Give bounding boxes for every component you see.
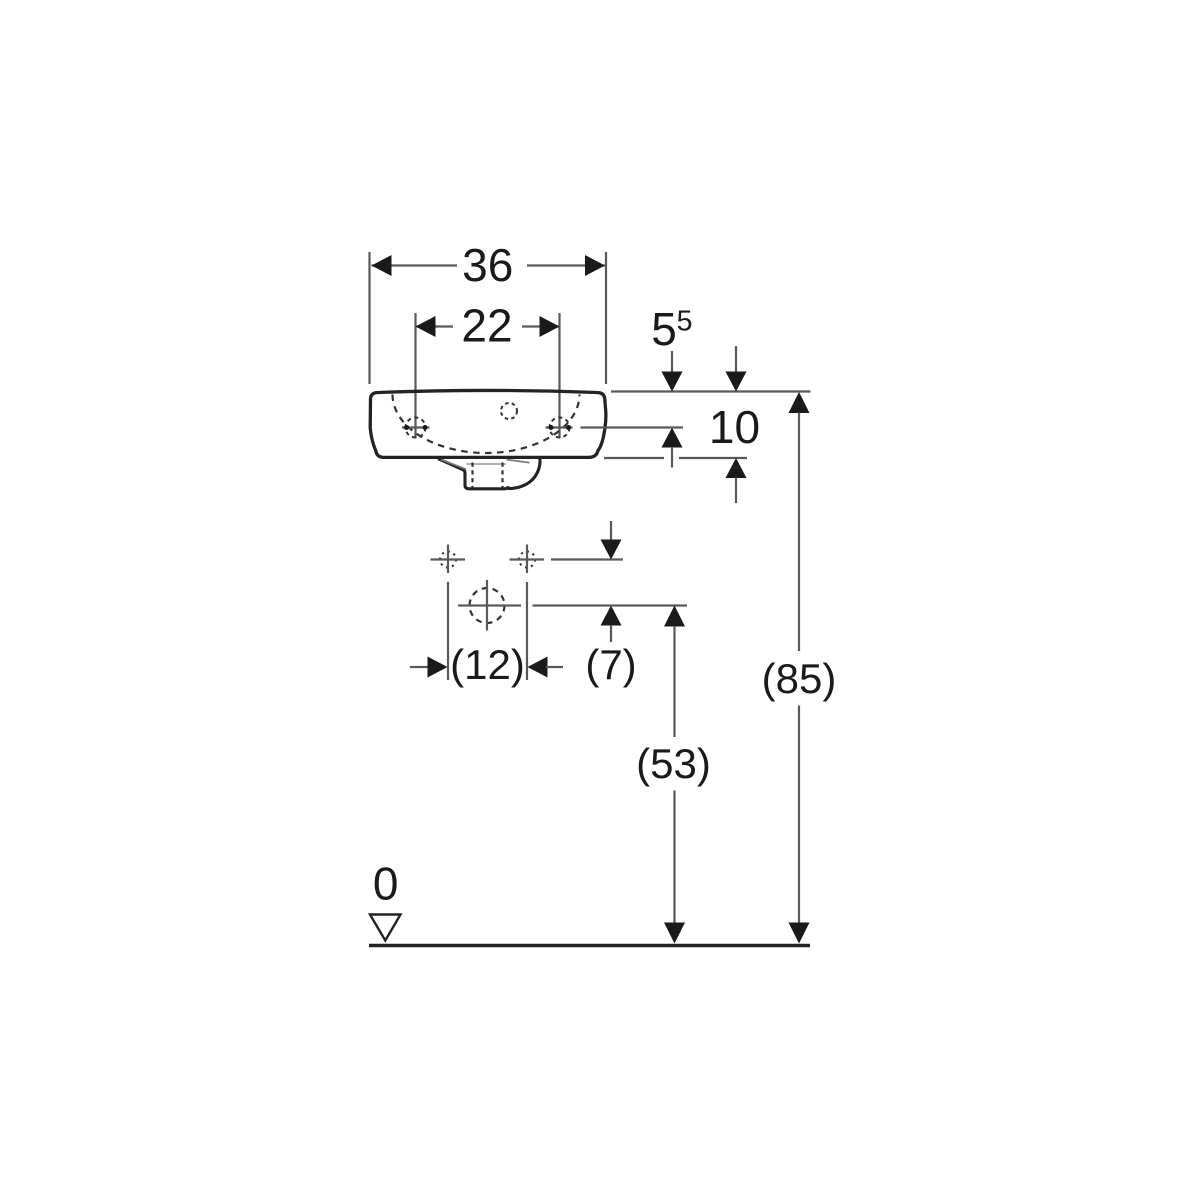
- dim 53 lower arrowhead: [664, 923, 685, 944]
- right mounting hole dotted circle: [519, 552, 535, 568]
- dim 12 left arrowhead: [428, 657, 448, 678]
- dim 7 lower arrowhead: [601, 606, 622, 626]
- mounting hole level line: [551, 558, 623, 560]
- left basin hole cross end dots: [404, 425, 409, 430]
- arrowhead left of dim 36: [372, 255, 392, 276]
- drain inner slant line right: [507, 460, 530, 463]
- level line bottom of basin left segment: [604, 457, 664, 459]
- dim 7 lower arrow stem: [610, 625, 612, 642]
- siphon dashed circle: [470, 588, 505, 623]
- right basin hole cross line: [546, 426, 573, 428]
- dim 12 right arrowhead: [528, 657, 548, 678]
- dimension line 36 right segment: [527, 264, 605, 266]
- dimension line 36 left segment: [372, 264, 458, 266]
- dimension line 22 right segment: [522, 325, 560, 327]
- left mounting hole dotted circle: [440, 552, 456, 568]
- svg-text:(12): (12): [450, 641, 525, 688]
- left basin hole cross line: [402, 426, 430, 428]
- svg-text:0: 0: [373, 858, 399, 910]
- dim 85 lower stem: [798, 706, 800, 924]
- dim 12 right extension line: [526, 582, 528, 680]
- drain inner slant line left: [441, 460, 466, 470]
- svg-text:36: 36: [462, 239, 513, 291]
- arrowhead right of dim 36: [585, 255, 605, 276]
- dim 10 upper arrowhead: [726, 372, 747, 392]
- right basin hole cross end dots: [549, 425, 554, 430]
- level line top of basin: [611, 390, 811, 392]
- dim 10 lower arrowhead: [726, 458, 747, 478]
- drain outlet thick outline: [438, 459, 508, 489]
- dimension line 22 left segment: [416, 325, 454, 327]
- svg-text:10: 10: [709, 401, 760, 453]
- right mounting hole vertical cross: [526, 545, 528, 574]
- drain inner bottom line: [467, 463, 507, 465]
- dim 5.5 upper arrowhead: [662, 372, 683, 392]
- siphon level line to dim 53: [533, 604, 688, 606]
- right basin hole dashed circle: [550, 418, 570, 438]
- dim 53 upper stem: [673, 626, 675, 737]
- basin outer outline: [370, 390, 606, 457]
- level line bottom of basin right segment: [679, 457, 747, 459]
- dim 7 upper arrowhead: [601, 540, 622, 560]
- dim 85 upper arrowhead: [789, 392, 810, 413]
- dashed inner bowl rim: [393, 395, 580, 454]
- arrowhead left of dim 22: [416, 316, 436, 337]
- tap hole level line to dim 5.5: [581, 426, 684, 428]
- ground line: [369, 944, 810, 947]
- svg-text:(7): (7): [585, 641, 636, 688]
- dim 5.5 lower arrowhead: [662, 428, 683, 448]
- left mounting hole vertical cross: [447, 545, 449, 574]
- extension line right of dim 36: [605, 252, 607, 384]
- left basin hole dashed circle: [406, 418, 426, 438]
- svg-text:(53): (53): [636, 740, 711, 787]
- small dashed circle tap hole: [501, 403, 517, 419]
- right mounting hole horizontal cross: [510, 558, 545, 560]
- drain dashed pipe wall right: [501, 463, 503, 488]
- dim 10 upper arrow stem: [735, 346, 737, 372]
- dim 85 upper stem: [798, 413, 800, 652]
- dim 53 upper arrowhead: [664, 606, 685, 627]
- dim 5.5 upper arrow stem: [671, 351, 673, 372]
- datum open triangle: [370, 915, 401, 941]
- dim 85 lower arrowhead: [789, 923, 810, 944]
- svg-text:5: 5: [677, 306, 693, 338]
- extension line right of dim 22: [558, 313, 560, 439]
- dim 7 upper arrow stem: [610, 521, 612, 540]
- siphon vertical cross line: [486, 580, 488, 631]
- dim 12 right arrow stem: [546, 666, 563, 668]
- dim 10 lower arrow stem: [735, 478, 737, 504]
- dim 12 left extension line: [447, 582, 449, 680]
- svg-text:5: 5: [651, 303, 677, 355]
- drain outlet right horn curve: [508, 459, 540, 489]
- dim 5.5 lower arrow stem: [671, 447, 673, 468]
- dim 53 lower stem: [673, 791, 675, 924]
- extension line left of dim 36: [368, 252, 370, 384]
- siphon horizontal cross line: [458, 604, 521, 606]
- arrowhead right of dim 22: [540, 316, 560, 337]
- svg-text:(85): (85): [762, 655, 837, 702]
- left mounting hole horizontal cross: [431, 558, 466, 560]
- svg-text:22: 22: [461, 300, 512, 352]
- extension line left of dim 22: [414, 313, 416, 439]
- drain dashed pipe wall left: [471, 463, 473, 488]
- dim 12 left arrow stem: [410, 666, 429, 668]
